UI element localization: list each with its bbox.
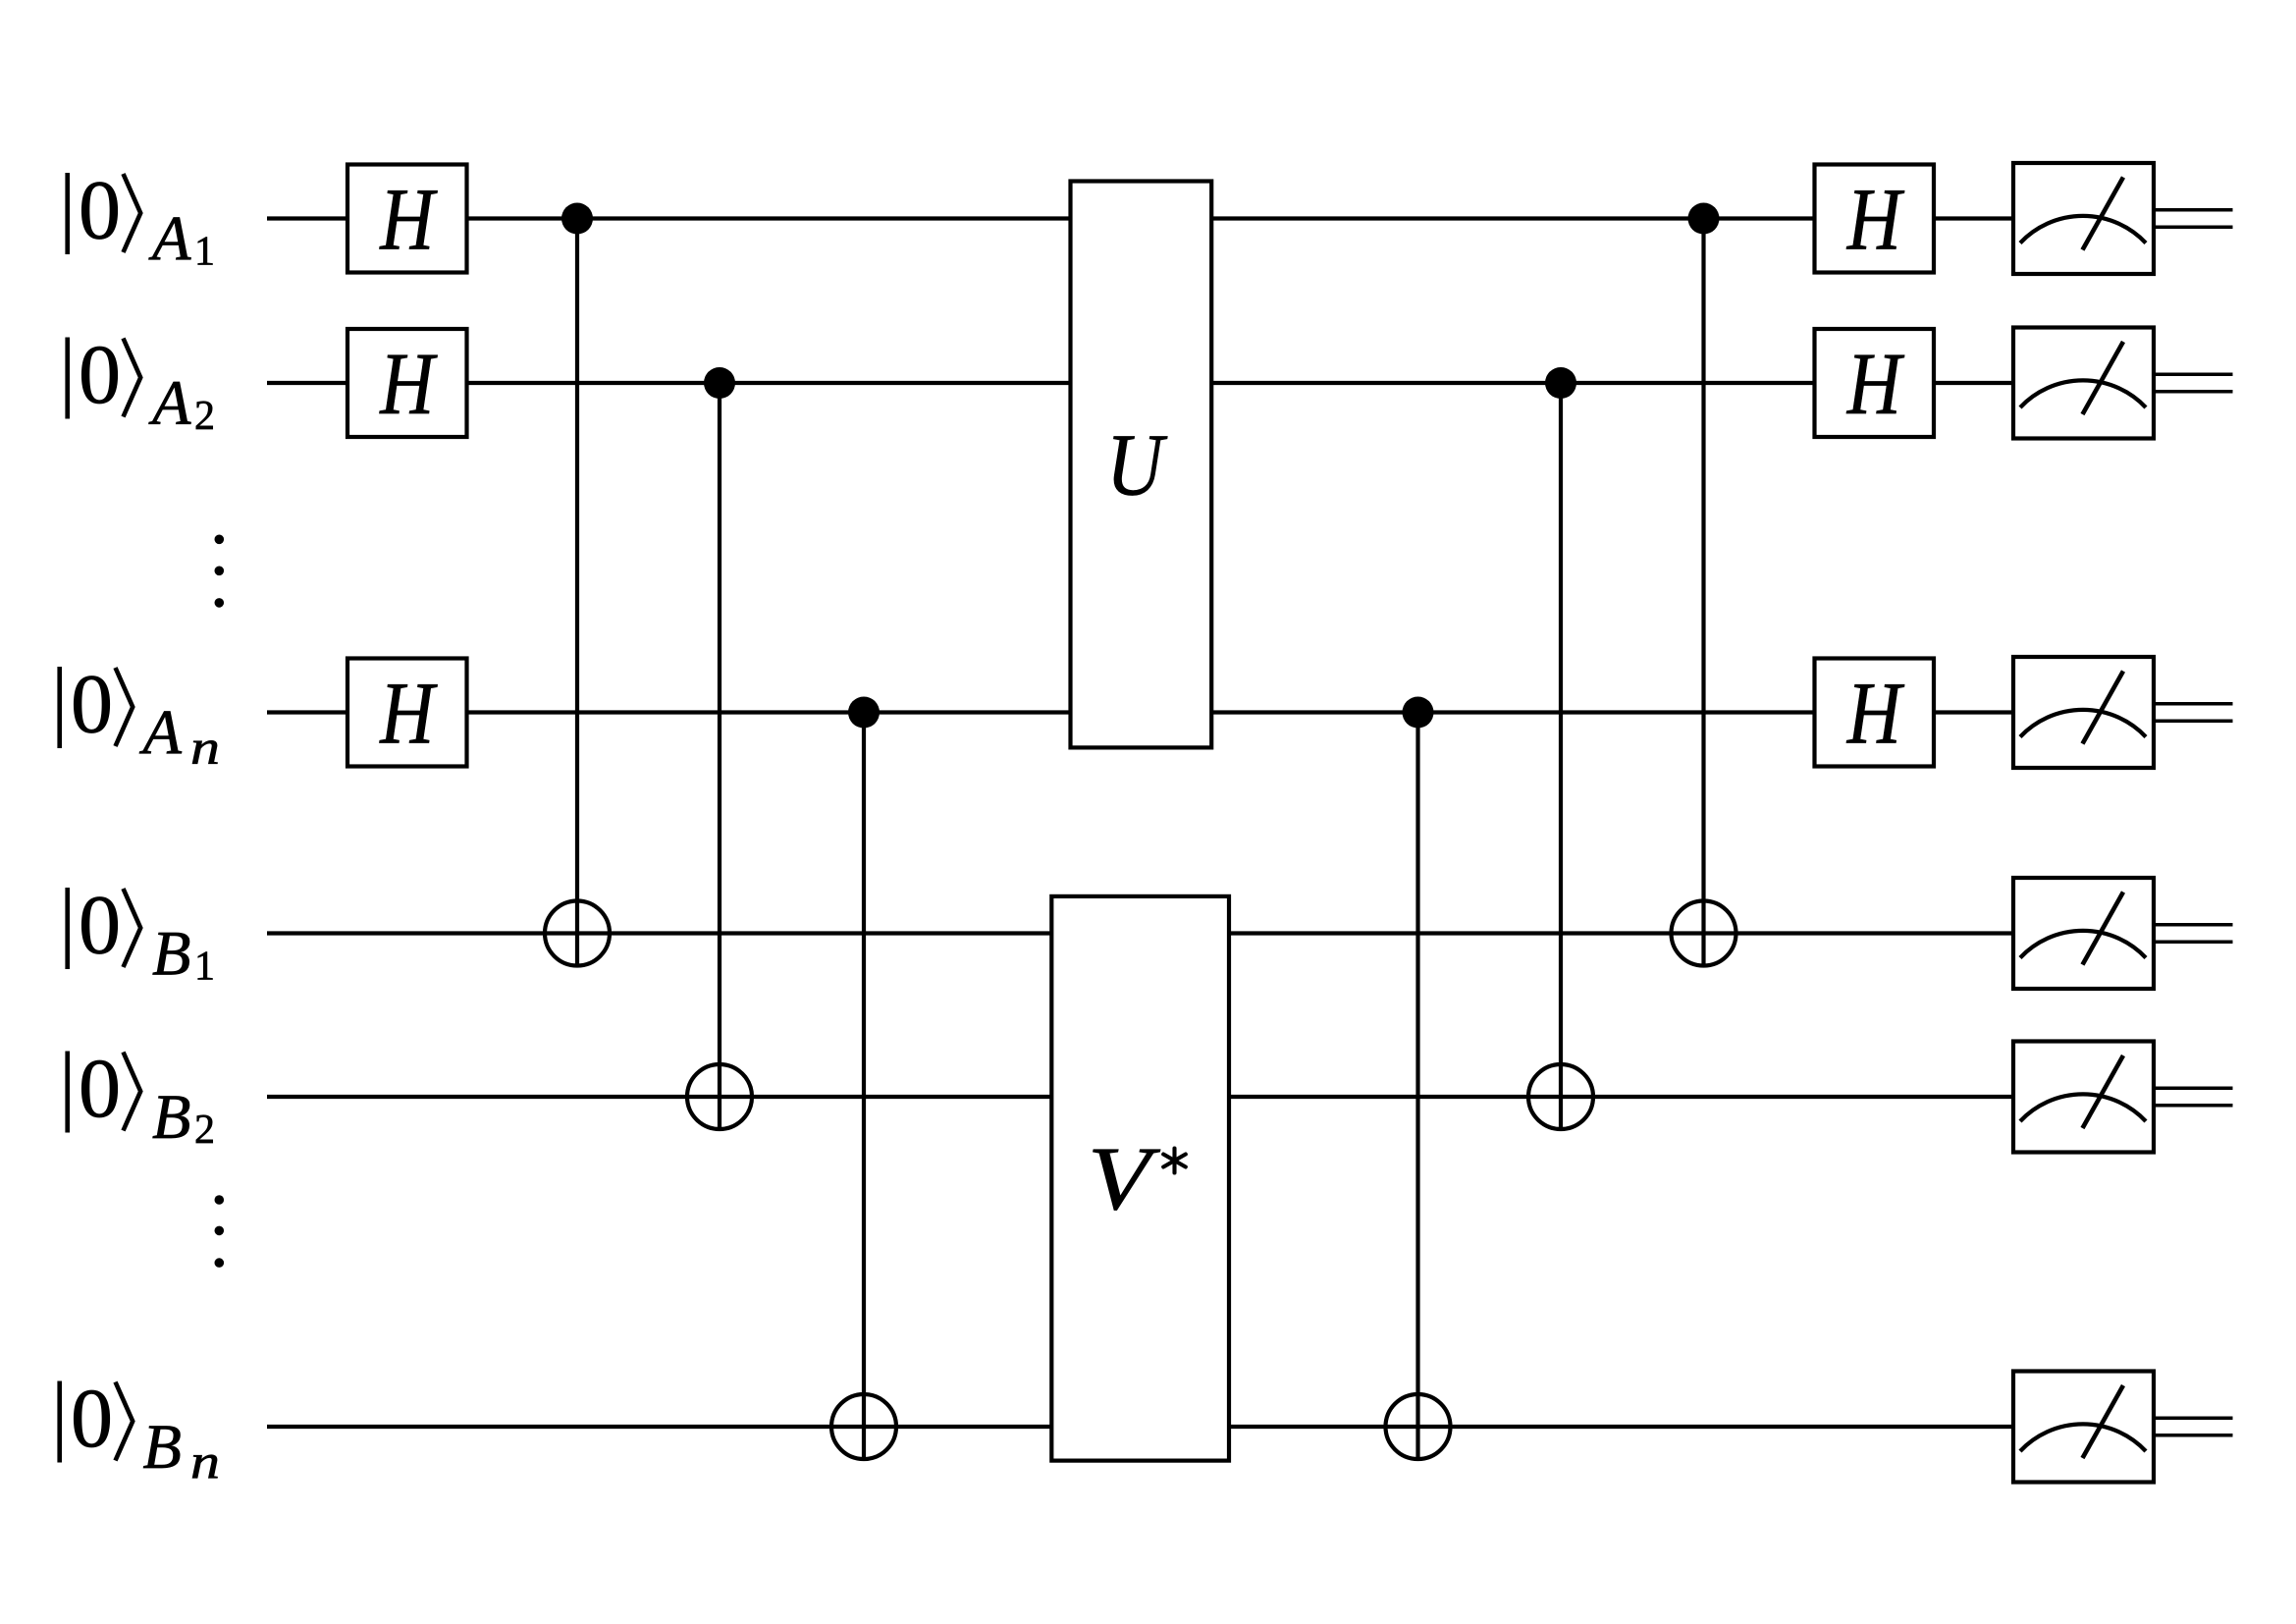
control wire CX-R3 (An-Bn) bbox=[1415, 713, 1419, 1460]
ellipsis dots between B2 and Bn bbox=[215, 1195, 225, 1268]
control wire CX-R1 (A1-B1) bbox=[1701, 219, 1705, 966]
control dot CX-L1 on A1 bbox=[561, 203, 593, 235]
svg-text:A: A bbox=[148, 368, 191, 438]
measurement meter An bbox=[2013, 657, 2154, 768]
measurement meter B2 bbox=[2013, 1042, 2154, 1153]
svg-text:B: B bbox=[143, 1412, 182, 1482]
svg-text:B: B bbox=[152, 919, 190, 989]
classical double wire A1 bbox=[2156, 210, 2233, 228]
classical double wire An bbox=[2156, 704, 2233, 722]
classical double wire B1 bbox=[2156, 925, 2233, 943]
wire B2 bbox=[267, 1095, 2013, 1099]
svg-text:1: 1 bbox=[194, 945, 215, 990]
classical double wire B2 bbox=[2156, 1088, 2233, 1106]
svg-text:H: H bbox=[1846, 666, 1905, 763]
asterisk superscript of V bbox=[1163, 1149, 1186, 1173]
svg-text:n: n bbox=[190, 720, 220, 775]
H gate A2 right bbox=[1815, 329, 1935, 437]
ket label |0>_Bn bbox=[60, 1371, 220, 1489]
ellipsis dots between A2 and An bbox=[215, 535, 225, 608]
H gate A1 left bbox=[347, 165, 467, 273]
svg-text:H: H bbox=[379, 336, 438, 433]
wire B1 bbox=[267, 931, 2013, 935]
ket label |0>_B1 bbox=[68, 878, 215, 990]
svg-text:2: 2 bbox=[194, 1108, 215, 1153]
control wire CX-L2 (A2-B2) bbox=[718, 383, 721, 1129]
wire A1 bbox=[267, 216, 2013, 220]
ket label |0>_A2 bbox=[68, 327, 215, 439]
ket label |0>_B2 bbox=[68, 1041, 215, 1153]
svg-text:H: H bbox=[1846, 336, 1905, 433]
control wire CX-R2 (A2-B2) bbox=[1559, 383, 1563, 1129]
wire Bn bbox=[267, 1425, 2013, 1429]
H gate A1 right bbox=[1815, 165, 1935, 273]
ket label |0>_A1 bbox=[68, 163, 215, 275]
svg-text:0: 0 bbox=[79, 327, 121, 421]
control wire CX-L1 (A1-B1) bbox=[575, 219, 579, 966]
control dot CX-R3 on An bbox=[1403, 697, 1434, 729]
measurement meter B1 bbox=[2013, 878, 2154, 989]
measurement meter A2 bbox=[2013, 328, 2154, 439]
H gate A2 left bbox=[347, 329, 467, 437]
svg-text:0: 0 bbox=[71, 657, 113, 751]
wire An bbox=[267, 710, 2013, 714]
CNOT target CX-R1 on B1 bbox=[1672, 901, 1736, 966]
control dot CX-L3 on An bbox=[848, 697, 880, 729]
svg-text:0: 0 bbox=[79, 878, 121, 972]
CNOT target CX-R3 on Bn bbox=[1386, 1394, 1451, 1459]
svg-text:U: U bbox=[1106, 417, 1167, 514]
control dot CX-L2 on A2 bbox=[704, 367, 735, 399]
ket label |0>_An bbox=[60, 657, 220, 775]
svg-text:H: H bbox=[1846, 172, 1905, 269]
control dot CX-R2 on A2 bbox=[1545, 367, 1576, 399]
svg-text:n: n bbox=[190, 1434, 220, 1489]
CNOT target CX-L2 on B2 bbox=[687, 1064, 752, 1129]
control wire CX-L3 (An-Bn) bbox=[862, 713, 866, 1460]
svg-text:A: A bbox=[139, 698, 183, 768]
H gate An right bbox=[1815, 659, 1935, 767]
svg-text:2: 2 bbox=[194, 394, 215, 439]
svg-text:0: 0 bbox=[71, 1371, 113, 1465]
svg-text:0: 0 bbox=[79, 1041, 121, 1135]
CNOT target CX-R2 on B2 bbox=[1528, 1064, 1593, 1129]
H gate An left bbox=[347, 659, 467, 767]
svg-text:H: H bbox=[379, 666, 438, 763]
svg-text:B: B bbox=[152, 1082, 190, 1152]
classical double wire A2 bbox=[2156, 374, 2233, 392]
CNOT target CX-L3 on Bn bbox=[831, 1394, 896, 1459]
CNOT target CX-L1 on B1 bbox=[545, 901, 610, 966]
control dot CX-R1 on A1 bbox=[1688, 203, 1720, 235]
wire A2 bbox=[267, 381, 2013, 385]
V* gate box bbox=[1051, 896, 1229, 1461]
measurement meter Bn bbox=[2013, 1372, 2154, 1483]
svg-text:V: V bbox=[1088, 1128, 1161, 1228]
svg-text:A: A bbox=[148, 204, 191, 274]
U gate box bbox=[1071, 182, 1212, 748]
classical double wire Bn bbox=[2156, 1418, 2233, 1435]
svg-text:0: 0 bbox=[79, 163, 121, 257]
svg-text:H: H bbox=[379, 172, 438, 269]
measurement meter A1 bbox=[2013, 163, 2154, 274]
svg-text:1: 1 bbox=[194, 230, 215, 275]
